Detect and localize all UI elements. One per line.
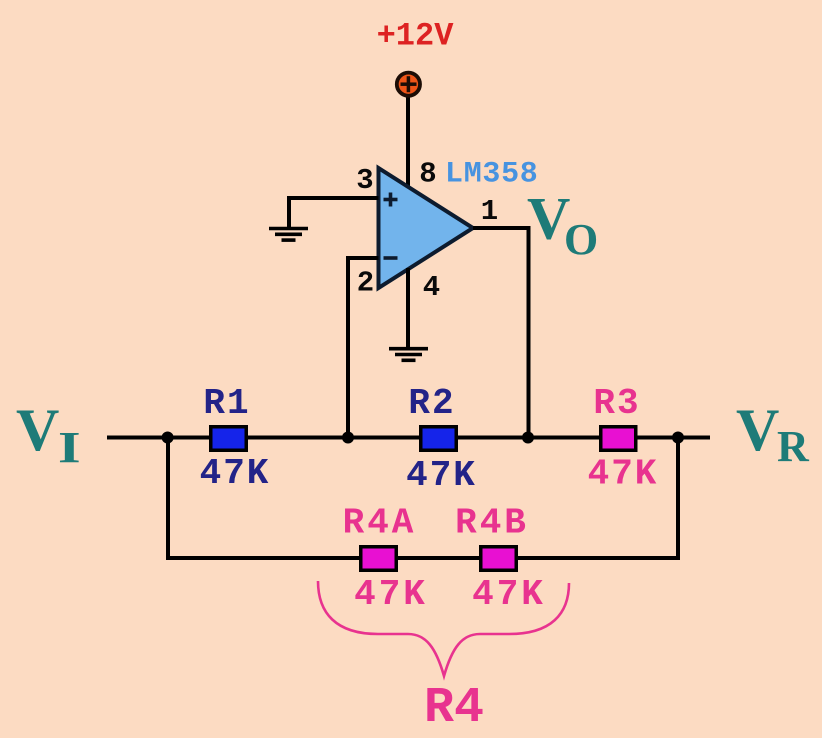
svg-text:1: 1: [481, 195, 498, 228]
svg-text:47K: 47K: [200, 453, 271, 494]
svg-text:3: 3: [356, 164, 373, 197]
svg-text:I: I: [58, 424, 81, 473]
svg-text:LM358: LM358: [445, 158, 539, 192]
svg-text:47K: 47K: [472, 574, 546, 615]
svg-text:8: 8: [419, 158, 436, 191]
svg-text:V: V: [736, 397, 779, 463]
svg-text:R2: R2: [408, 383, 455, 424]
svg-text:V: V: [16, 397, 59, 463]
svg-text:R4B: R4B: [455, 503, 529, 544]
svg-text:R4: R4: [424, 680, 484, 737]
svg-text:4: 4: [423, 271, 440, 304]
svg-text:R: R: [777, 422, 810, 471]
svg-text:R4A: R4A: [343, 503, 417, 544]
svg-text:47K: 47K: [406, 455, 477, 496]
svg-text:47K: 47K: [354, 574, 428, 615]
svg-text:O: O: [564, 215, 598, 264]
svg-text:+12V: +12V: [377, 18, 455, 55]
svg-text:R1: R1: [203, 383, 250, 424]
svg-text:2: 2: [357, 267, 374, 300]
svg-text:R3: R3: [593, 383, 640, 424]
svg-text:47K: 47K: [588, 454, 659, 495]
